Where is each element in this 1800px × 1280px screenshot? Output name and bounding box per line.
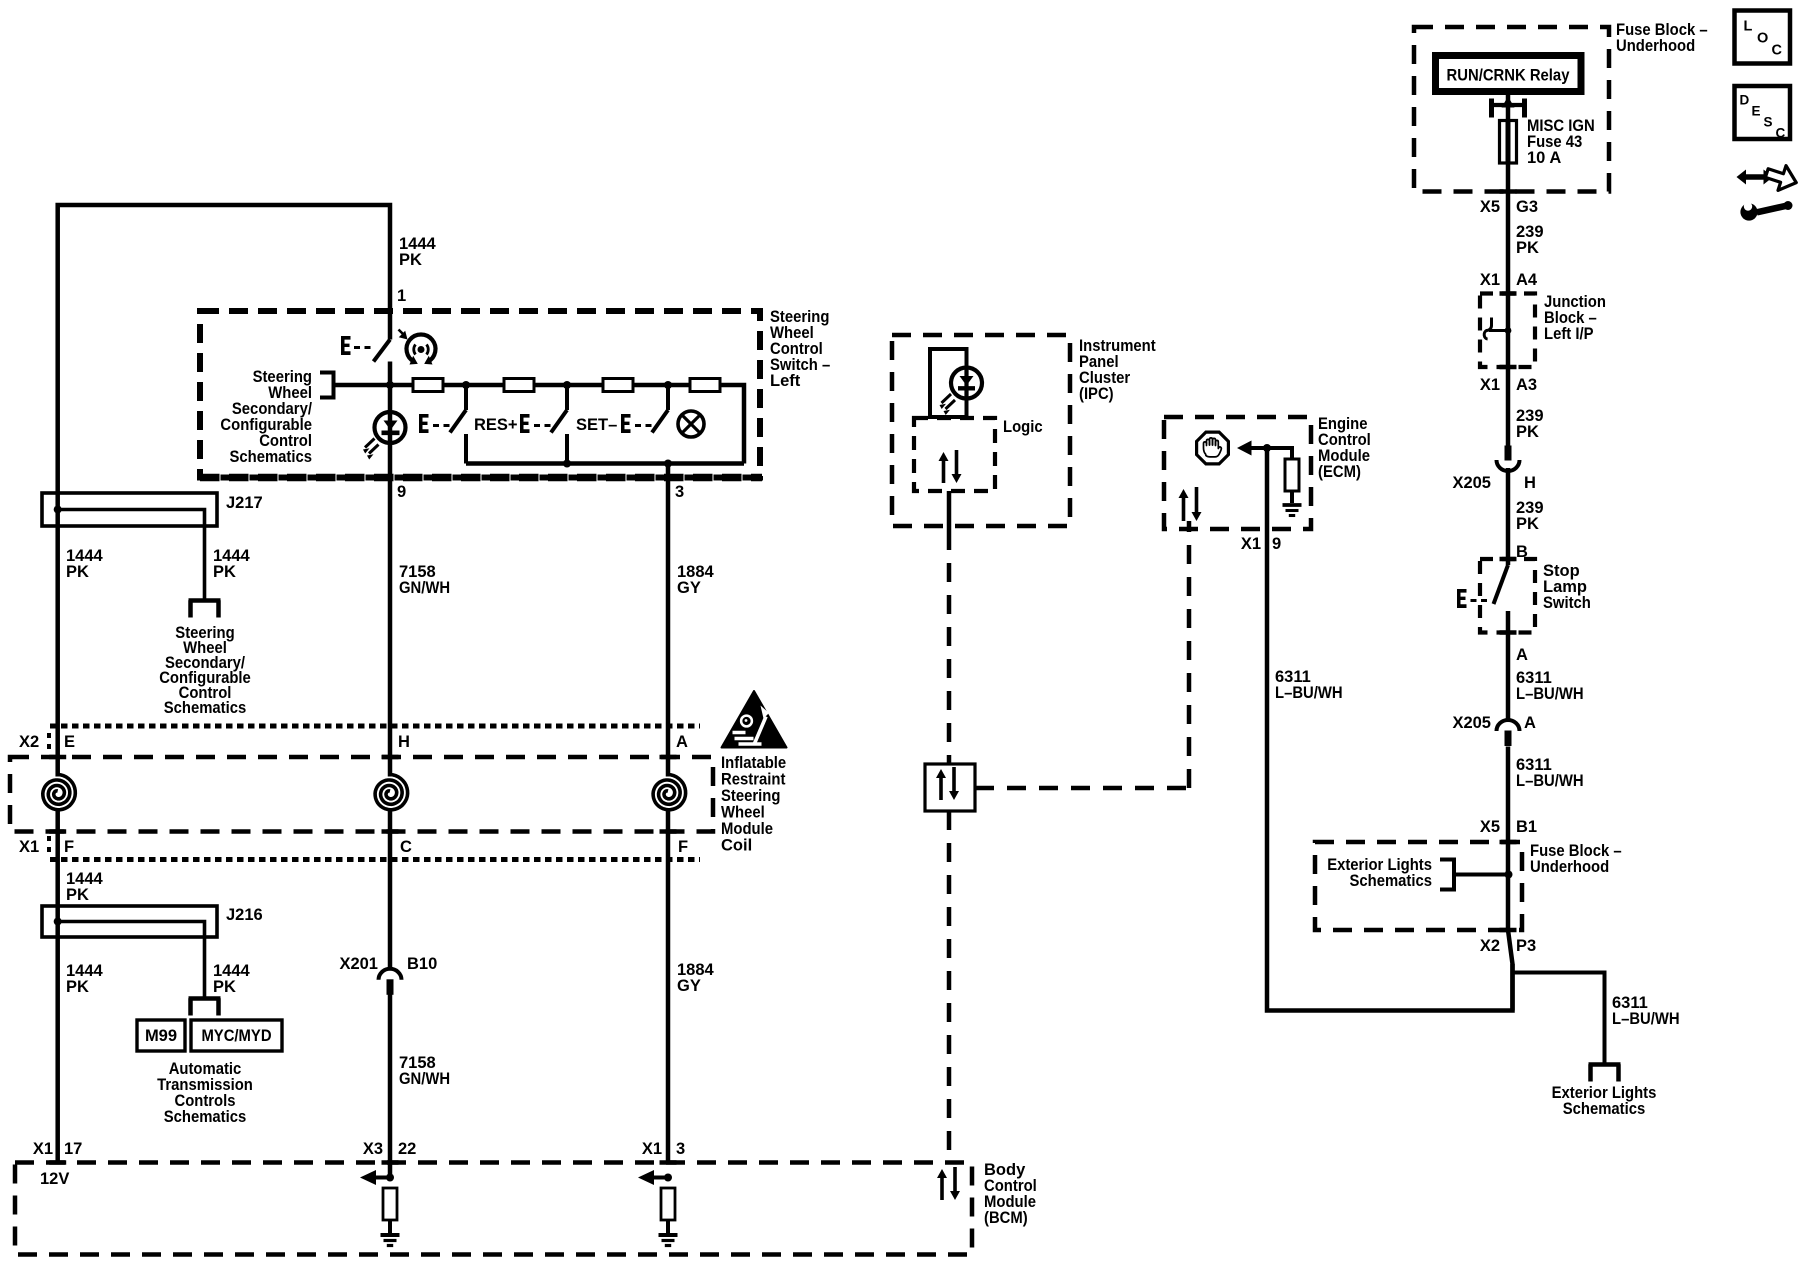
resistor BCM pin22 load <box>383 1188 397 1220</box>
svg-text:L–BU/WH: L–BU/WH <box>1516 772 1584 790</box>
switch CANCEL actuator E <box>621 414 631 433</box>
signal arrow ECM brake <box>1237 441 1252 456</box>
svg-text:Schematics: Schematics <box>164 699 247 717</box>
resistor R2 <box>504 379 534 392</box>
svg-text:O: O <box>1757 31 1768 47</box>
svg-text:Coil: Coil <box>721 837 752 855</box>
svg-text:C: C <box>400 838 412 856</box>
svg-text:L: L <box>1744 19 1753 35</box>
edge ticks fuse block lower <box>1500 840 1517 845</box>
svg-text:Left: Left <box>770 372 801 390</box>
module box Fuse Block - Underhood (dashed, lower) <box>1315 842 1522 930</box>
junction dot bus node D (CANCEL) <box>664 381 672 389</box>
svg-text:H: H <box>1524 474 1536 492</box>
svg-text:Wheel: Wheel <box>721 804 765 822</box>
junction dot bus/main wire <box>386 381 394 389</box>
wire coil to F <box>55 811 60 907</box>
wire ECM resistor to ground <box>1290 491 1294 503</box>
wire branch to exterior lights <box>1513 973 1605 1063</box>
svg-text:A4: A4 <box>1516 271 1538 289</box>
wire ECM pin9 6311 L-BU/WH <box>1267 448 1513 1011</box>
svg-text:M99: M99 <box>145 1027 177 1045</box>
module box Engine Control Module ECM (dashed) <box>1164 417 1311 529</box>
wire E to coil <box>55 726 60 777</box>
icon legend wiring arrows + wrench <box>1737 170 1774 185</box>
signal arrow BCM pin3 <box>638 1170 654 1185</box>
svg-text:3: 3 <box>675 483 684 501</box>
serial data arrows in BCM <box>940 1176 944 1200</box>
svg-text:(IPC): (IPC) <box>1079 385 1114 403</box>
connector fork to schematics (J217 branch) <box>189 598 221 603</box>
svg-text:RUN/CRNK Relay: RUN/CRNK Relay <box>1447 67 1571 85</box>
svg-text:Underhood: Underhood <box>1530 858 1609 876</box>
bracket to resistor ladder <box>320 373 334 398</box>
svg-text:PK: PK <box>66 886 89 904</box>
svg-text:X2: X2 <box>19 733 39 751</box>
icon cruise-control gauge <box>406 334 435 361</box>
svg-text:B1: B1 <box>1516 818 1537 836</box>
junction dot bottom bus SET- <box>563 460 571 468</box>
bracket exterior lights (in fuse block) <box>1440 860 1454 890</box>
switch SET- stub <box>565 385 569 410</box>
svg-text:C: C <box>1772 43 1783 59</box>
dashed data wire node to ECM <box>975 786 1189 791</box>
svg-text:A: A <box>1524 714 1536 732</box>
svg-text:S: S <box>1764 115 1773 130</box>
svg-text:E: E <box>1752 104 1761 119</box>
switch RES+ actuator E <box>419 414 429 433</box>
wire bottom bus <box>466 461 744 466</box>
splice pack J217 <box>42 493 217 526</box>
junction dot bottom bus CANCEL <box>664 460 672 468</box>
module box Body Control Module BCM (dashed) <box>15 1163 972 1255</box>
resistor R3 <box>603 379 633 392</box>
LED indicator (steering wheel switch) <box>375 412 406 443</box>
wire resistor to ground (3) <box>666 1220 670 1233</box>
svg-text:9: 9 <box>1272 535 1281 553</box>
edge ticks stop lamp switch <box>1500 557 1517 562</box>
junction dot ECM <box>1263 444 1271 452</box>
switch CANCEL stub <box>666 385 670 410</box>
switch CANCEL blade <box>652 410 668 433</box>
code box M99 <box>137 1020 185 1051</box>
fuse MISC IGN Fuse 43 10A <box>1500 121 1517 164</box>
svg-text:A: A <box>1516 646 1528 664</box>
junction dot fuse block bus <box>1505 871 1513 879</box>
wire coil to F (right) <box>666 811 671 1163</box>
svg-text:PK: PK <box>213 563 236 581</box>
svg-text:Underhood: Underhood <box>1616 37 1695 55</box>
wire bus R2-R3 <box>534 383 603 388</box>
switch RES+ stub <box>464 385 468 410</box>
junction dot BCM pin3 <box>664 1174 672 1182</box>
edge ticks BCM top crossings <box>49 1160 66 1165</box>
svg-text:GN/WH: GN/WH <box>399 1070 450 1088</box>
resistor R4 <box>690 379 720 392</box>
wire fuse to pin G3 <box>1506 163 1511 294</box>
wire 1444 PK to BCM pin 17 <box>55 906 60 1163</box>
module box Inflatable Restraint Steering Wheel Module Coil (dashed) <box>10 757 713 832</box>
module box Stop Lamp Switch (dashed) <box>1480 559 1535 633</box>
wire X205-A to fuse block pin B1 <box>1506 747 1511 843</box>
svg-text:GN/WH: GN/WH <box>399 579 450 597</box>
svg-text:Inflatable: Inflatable <box>721 754 786 772</box>
svg-text:Schematics: Schematics <box>230 448 313 466</box>
connector fork to exterior lights schematics <box>1589 1062 1621 1067</box>
switch RES+ blade <box>450 410 466 433</box>
wire coil to C <box>388 811 393 969</box>
svg-text:X1: X1 <box>33 1140 53 1158</box>
svg-text:22: 22 <box>398 1140 416 1158</box>
svg-text:SET–: SET– <box>576 416 617 434</box>
icon legend DESC box <box>1735 86 1791 139</box>
svg-text:PK: PK <box>213 978 236 996</box>
svg-text:(ECM): (ECM) <box>1318 463 1361 481</box>
svg-text:3: 3 <box>676 1140 685 1158</box>
junction dot bus node B (RES+) <box>462 381 470 389</box>
svg-text:Logic: Logic <box>1003 418 1043 436</box>
wire X201 to BCM pin 22 <box>388 995 393 1178</box>
wire J217 branch <box>58 510 205 599</box>
edge tick fuse block bottom <box>1500 189 1517 194</box>
svg-text:G3: G3 <box>1516 198 1538 216</box>
svg-text:X5: X5 <box>1480 198 1500 216</box>
module box Steering Wheel Control Switch - Left (dashed) <box>200 311 760 478</box>
junction dot J216 <box>54 918 62 926</box>
svg-text:17: 17 <box>64 1140 82 1158</box>
LED indicator (IPC) <box>951 368 982 399</box>
svg-text:P3: P3 <box>1516 937 1536 955</box>
wire resistor to ground (22) <box>388 1220 392 1233</box>
wire relay to fuse <box>1506 94 1511 123</box>
ground (BCM pin22) <box>381 1233 400 1237</box>
ground (BCM pin3) <box>659 1233 678 1237</box>
icon cancel (circle-X lamp) <box>678 411 704 437</box>
signal arrow BCM pin22 <box>360 1170 376 1185</box>
svg-text:C: C <box>1776 126 1786 141</box>
wire bus R1-R2 <box>443 383 504 388</box>
svg-text:X201: X201 <box>339 955 378 973</box>
svg-text:RES+: RES+ <box>474 416 518 434</box>
svg-text:10 A: 10 A <box>1527 149 1561 167</box>
svg-text:Module: Module <box>721 820 773 838</box>
svg-text:MYC/MYD: MYC/MYD <box>201 1027 271 1045</box>
module box Fuse Block - Underhood (dashed, top) <box>1414 27 1609 192</box>
svg-text:X1: X1 <box>642 1140 662 1158</box>
svg-text:(BCM): (BCM) <box>984 1209 1028 1227</box>
svg-text:A: A <box>676 733 688 751</box>
wire fuse block bus through <box>1506 842 1511 930</box>
wire A to coil <box>666 726 671 777</box>
serial data arrows in ECM <box>1182 496 1186 521</box>
junction dot J217 <box>54 506 62 514</box>
module box Junction Block - Left I/P (dashed) <box>1480 294 1535 368</box>
svg-text:GY: GY <box>677 579 701 597</box>
coil clockspring A-F <box>653 775 686 810</box>
wire ECM internal to resistor <box>1267 448 1292 459</box>
inline connector X205 H <box>1505 446 1512 461</box>
wire bus R3-R4 <box>633 383 690 388</box>
svg-text:X205: X205 <box>1452 474 1491 492</box>
svg-text:PK: PK <box>66 978 89 996</box>
svg-text:X5: X5 <box>1480 818 1500 836</box>
svg-text:H: H <box>398 733 410 751</box>
svg-text:PK: PK <box>66 563 89 581</box>
svg-text:B10: B10 <box>407 955 437 973</box>
svg-text:Switch: Switch <box>1543 594 1591 612</box>
relay box RUN/CRNK Relay <box>1436 56 1582 92</box>
resistor R1 <box>413 379 443 392</box>
wire junction block through <box>1506 294 1511 446</box>
wire stop lamp out <box>1506 611 1511 720</box>
coil clockspring H-C <box>375 775 408 810</box>
junction dot BCM pin22 <box>386 1174 394 1182</box>
switch SET- blade <box>551 410 567 433</box>
svg-text:Schematics: Schematics <box>1563 1100 1646 1118</box>
edge ticks coil box crossings <box>49 755 66 760</box>
wire pin P3 jog down <box>1508 930 1513 1011</box>
edge ticks junction block <box>1500 291 1517 296</box>
svg-text:Left I/P: Left I/P <box>1544 325 1594 343</box>
svg-text:PK: PK <box>1516 515 1539 533</box>
svg-text:D: D <box>1740 93 1750 108</box>
svg-text:Schematics: Schematics <box>164 1108 247 1126</box>
dashed data wire IPC to node <box>947 531 952 764</box>
svg-text:PK: PK <box>399 251 422 269</box>
icon inflatable restraint warning triangle <box>722 691 787 748</box>
svg-text:X205: X205 <box>1452 714 1491 732</box>
wire CANCEL to pin 3 <box>666 464 671 727</box>
serial data arrows in logic box <box>942 459 946 483</box>
wire X205-H to stop lamp switch <box>1506 468 1511 565</box>
wire resistor ladder bus <box>334 383 414 388</box>
serial data arrows in node box <box>939 776 943 800</box>
switch stop lamp blade <box>1494 565 1509 604</box>
junction dot bus node C (SET-) <box>563 381 571 389</box>
wire J216 branch <box>58 922 205 997</box>
wire logic stub <box>947 491 952 531</box>
svg-text:E: E <box>64 733 75 751</box>
switch cruise on/off (momentary) <box>341 336 351 355</box>
code box MYC/MYD <box>191 1020 282 1051</box>
svg-text:A3: A3 <box>1516 376 1537 394</box>
connector tick X1 <box>47 836 51 854</box>
svg-text:X3: X3 <box>363 1140 383 1158</box>
wire LED to pin 9 <box>388 441 393 726</box>
svg-text:X1: X1 <box>1480 271 1500 289</box>
splice pack J216 <box>42 906 217 937</box>
resistor BCM pin3 load <box>661 1188 675 1220</box>
coil clockspring E-F <box>43 775 76 810</box>
svg-text:F: F <box>64 838 74 856</box>
wire 1444 PK feed from top-left loop <box>58 205 390 493</box>
svg-text:1: 1 <box>397 287 406 305</box>
svg-text:F: F <box>678 838 688 856</box>
bus bar symbol (junction block) <box>1484 318 1491 340</box>
connector fork to transmission schematics <box>189 996 221 1001</box>
svg-text:Schematics: Schematics <box>1350 872 1433 890</box>
svg-text:L–BU/WH: L–BU/WH <box>1516 685 1584 703</box>
wire main 1444 PK down to X2-E <box>55 493 60 726</box>
connector row X2 (dotted) <box>50 724 700 729</box>
resistor ECM pulldown <box>1285 459 1299 491</box>
switch SET- actuator E <box>520 414 530 433</box>
wire RES+ to bottom bus <box>464 434 468 464</box>
inline connector X205 A <box>1497 720 1520 731</box>
svg-text:X1: X1 <box>1241 535 1261 553</box>
LED loop wire (IPC indicator) <box>930 349 967 417</box>
svg-text:Steering: Steering <box>721 787 780 805</box>
svg-text:J217: J217 <box>226 494 263 512</box>
wire SET- to bottom bus <box>565 434 569 464</box>
wire bus R4 to right corner <box>720 385 744 464</box>
svg-text:X1: X1 <box>1480 376 1500 394</box>
icon legend LOC box <box>1735 11 1791 64</box>
connector tick X2 <box>47 733 51 751</box>
svg-text:12V: 12V <box>40 1170 69 1188</box>
wire to exterior lights bracket <box>1454 873 1508 877</box>
svg-text:PK: PK <box>1516 423 1539 441</box>
fuse clip symbol <box>1489 99 1494 118</box>
wire H to coil <box>388 726 393 777</box>
svg-text:GY: GY <box>677 977 701 995</box>
logic box (dashed) <box>914 418 995 491</box>
wire switch to LED <box>388 362 393 413</box>
connector row X1 (dotted) <box>50 857 700 862</box>
icon stop hand octagon (brake input) <box>1197 432 1229 464</box>
svg-text:Restraint: Restraint <box>721 771 786 789</box>
svg-text:L–BU/WH: L–BU/WH <box>1275 684 1343 702</box>
ground (ECM) <box>1283 503 1302 507</box>
svg-text:9: 9 <box>397 483 406 501</box>
dashed data wire node to BCM <box>947 811 952 1163</box>
svg-text:L–BU/WH: L–BU/WH <box>1612 1010 1680 1028</box>
inline connector X201 B10 <box>379 969 402 980</box>
svg-text:X2: X2 <box>1480 937 1500 955</box>
svg-text:PK: PK <box>1516 239 1539 257</box>
svg-text:J216: J216 <box>226 906 263 924</box>
module box Instrument Panel Cluster IPC (dashed) <box>892 335 1070 526</box>
serial data node box <box>925 764 975 811</box>
svg-text:X1: X1 <box>19 838 39 856</box>
